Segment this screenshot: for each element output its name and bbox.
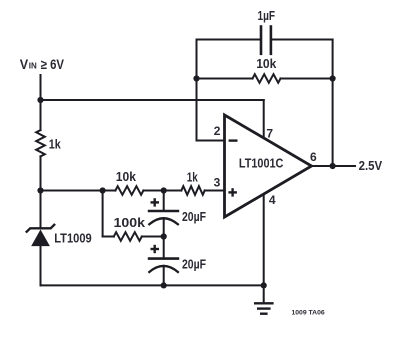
wire: pin2 feedback vertical bbox=[196, 40, 198, 141]
svg-text:20µF: 20µF bbox=[182, 257, 206, 271]
node output bbox=[330, 163, 336, 169]
wire: VIN vertical upper bbox=[40, 75, 42, 130]
resistor 1k pin3 row bbox=[181, 186, 204, 195]
svg-text:1µF: 1µF bbox=[258, 9, 276, 23]
svg-text:1k: 1k bbox=[49, 138, 61, 152]
svg-text:1k: 1k bbox=[187, 170, 198, 184]
wire: pin3 node to zener cathode bbox=[40, 191, 42, 229]
wire: output pin6 bbox=[312, 165, 355, 167]
wire: between 10k and 1k bbox=[143, 190, 181, 192]
node cap bottom bbox=[161, 282, 167, 288]
svg-text:4: 4 bbox=[269, 193, 276, 207]
wire: pin2 horizontal bbox=[197, 140, 225, 142]
wire: bottom rail bbox=[41, 284, 264, 286]
resistor 100k bbox=[114, 232, 142, 241]
capacitor 20uF bottom plates bbox=[149, 257, 178, 260]
wire: VIN rail horizontal bbox=[41, 99, 264, 101]
node feedback left bbox=[193, 75, 199, 81]
capacitor 20uF top plates bbox=[149, 210, 178, 213]
wire: 10k loop left bbox=[197, 78, 253, 80]
svg-text:10k: 10k bbox=[256, 57, 276, 71]
resistor R 1k vertical bbox=[36, 130, 45, 156]
resistor 10k pin3 row bbox=[115, 186, 143, 195]
svg-text:10k: 10k bbox=[116, 170, 136, 184]
wire: 10k loop right bbox=[281, 78, 333, 80]
op-amp U1 triangle bbox=[225, 115, 312, 217]
wire: below 1k to pin3 node bbox=[40, 156, 42, 190]
wire: pin4 vertical bbox=[263, 195, 265, 286]
wire: 100k branch horizontal left bbox=[103, 236, 114, 238]
svg-text:2: 2 bbox=[214, 124, 221, 138]
wire: cap column top bbox=[163, 191, 165, 212]
op-amp plus sign bbox=[228, 191, 237, 193]
node VIN junction bbox=[37, 97, 43, 103]
ground stub bbox=[263, 285, 265, 303]
svg-text:6: 6 bbox=[310, 150, 317, 164]
resistor 10k feedback bbox=[253, 74, 281, 83]
svg-text:7: 7 bbox=[266, 127, 273, 141]
node cap mid bbox=[161, 233, 167, 239]
node ground bbox=[261, 282, 267, 288]
wire: right vertical feedback bbox=[332, 40, 334, 167]
ground bars bbox=[255, 302, 272, 304]
svg-text:3: 3 bbox=[214, 176, 221, 190]
svg-text:LT1001C: LT1001C bbox=[239, 156, 284, 170]
svg-text:2.5V: 2.5V bbox=[359, 158, 383, 173]
wire: 100k branch vertical bbox=[102, 191, 104, 237]
wire: zener anode down to bottom rail bbox=[40, 246, 42, 285]
capacitor 1uF plates bbox=[260, 27, 263, 54]
wire: top loop to 1uF left bbox=[197, 39, 262, 41]
wire: 100k to cap mid node bbox=[142, 236, 164, 238]
wire: bottom cap to rail bbox=[163, 266, 165, 286]
wire: pin3 row left bbox=[41, 190, 116, 192]
svg-text:20µF: 20µF bbox=[182, 210, 206, 224]
wire: 1k to pin3 bbox=[205, 190, 224, 192]
svg-text:100k: 100k bbox=[114, 216, 146, 230]
wire: cap column between arc and mid node bbox=[163, 218, 165, 237]
capacitor plus signs bbox=[151, 201, 160, 203]
svg-text:1009 TA06: 1009 TA06 bbox=[292, 310, 325, 317]
node feedback right bbox=[330, 75, 336, 81]
wire: 1uF right to corner bbox=[271, 39, 333, 41]
node pin3 left bbox=[37, 187, 43, 193]
wire: mid node to bottom cap bbox=[163, 237, 165, 259]
node cap top bbox=[161, 187, 167, 193]
op-amp minus sign bbox=[229, 139, 238, 141]
wire: pin7 drop bbox=[263, 100, 265, 138]
node 100k branch bbox=[100, 187, 106, 193]
svg-text:V: V bbox=[20, 56, 29, 72]
svg-text:LT1009: LT1009 bbox=[54, 231, 92, 245]
svg-text:≥ 6V: ≥ 6V bbox=[41, 57, 64, 72]
svg-text:IN: IN bbox=[29, 61, 37, 71]
diode LT1009 zener bbox=[27, 225, 55, 232]
